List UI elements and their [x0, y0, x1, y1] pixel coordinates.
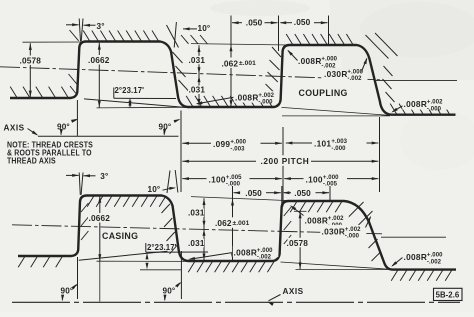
thread axis line (casing) with AXIS label	[12, 287, 460, 306]
extension lines for pitch dimensions	[181, 111, 380, 207]
dimension .101 +.003/-.000	[286, 137, 379, 152]
left crest extension line	[23, 41, 85, 43]
dimension .0662 (coupling)	[88, 43, 112, 108]
radius .008R +.000/-.002 (casing root)	[188, 246, 278, 261]
radius .030R +.000/-.002 (groove2 right corner)	[323, 58, 368, 83]
coupling pitch line (tapered)	[0, 67, 457, 81]
angle 90 deg right (coupling)	[159, 119, 181, 136]
dimension .100 +.005/-.000	[182, 173, 281, 188]
note thread crests and roots parallel to thread axis	[7, 140, 93, 166]
angle 3 deg (coupling stab flank)	[66, 19, 105, 42]
dimension .062 +/-.001 (coupling)	[220, 45, 259, 107]
coupling flank hatching	[69, 30, 398, 102]
angle 90 deg right (casing)	[163, 251, 182, 301]
root cone line behind casing tooth2	[281, 262, 392, 270]
casing crest extension line	[191, 197, 289, 201]
label CASING	[102, 231, 138, 241]
label COUPLING	[299, 88, 348, 98]
radius .008R +.002/-.000 (right root)	[391, 99, 448, 113]
root cone line behind groove2	[282, 107, 391, 116]
radius .030R +.002/-.000 (tooth2 right corner)	[320, 216, 371, 240]
angle 90 deg left (coupling)	[57, 100, 78, 136]
casing section hatching	[18, 196, 452, 281]
dimensions .031 .031 (coupling)	[188, 45, 205, 105]
dimensions .031 .031 (casing)	[188, 198, 206, 260]
angle 2deg23.17' taper (casing)	[79, 243, 208, 270]
coupling thread profile outline	[10, 42, 456, 115]
dimension .200 PITCH	[182, 155, 378, 166]
dimensions .050 .050 (coupling crest)	[231, 16, 329, 108]
radius .008R +.000/-.002 (groove2 left corner)	[287, 50, 341, 70]
crest extension line	[191, 44, 290, 45]
dimension .0578 (coupling)	[19, 43, 43, 97]
angle 90 deg left (casing)	[61, 257, 78, 301]
casing thread profile outline	[18, 196, 456, 270]
angle 3 deg (casing stab flank)	[66, 172, 108, 195]
coupling section hatching	[10, 31, 450, 115]
figure number 5B-2.6	[434, 288, 463, 300]
dimension .100 +.000/-.005	[284, 173, 378, 188]
dimension .062 +/-.001 (casing)	[213, 199, 252, 260]
dimensions .050 .050 (casing crest)	[233, 186, 331, 260]
dimension .0662 (casing)	[88, 196, 112, 302]
root extension line	[97, 106, 189, 109]
radius .008R +.000/-.002 (casing right root)	[391, 252, 448, 267]
dimension .099 +.000/-.003	[182, 137, 281, 153]
thread axis line (coupling) with AXIS label	[4, 123, 179, 136]
angle 2deg23.17' taper (coupling)	[84, 86, 189, 108]
radius .008R +.002/-.000 (tooth2 left corner)	[290, 205, 349, 229]
dimension .0578 (casing)	[287, 211, 313, 269]
radius .008R +.002/-.000 (groove1 root)	[196, 91, 279, 106]
casing root extension line	[97, 260, 190, 262]
casing pitch line (tapered)	[12, 225, 446, 237]
casing flank hatching	[81, 202, 381, 261]
angle 10 deg (coupling load flank)	[167, 22, 211, 48]
angle 10 deg (casing load flank)	[148, 170, 178, 194]
